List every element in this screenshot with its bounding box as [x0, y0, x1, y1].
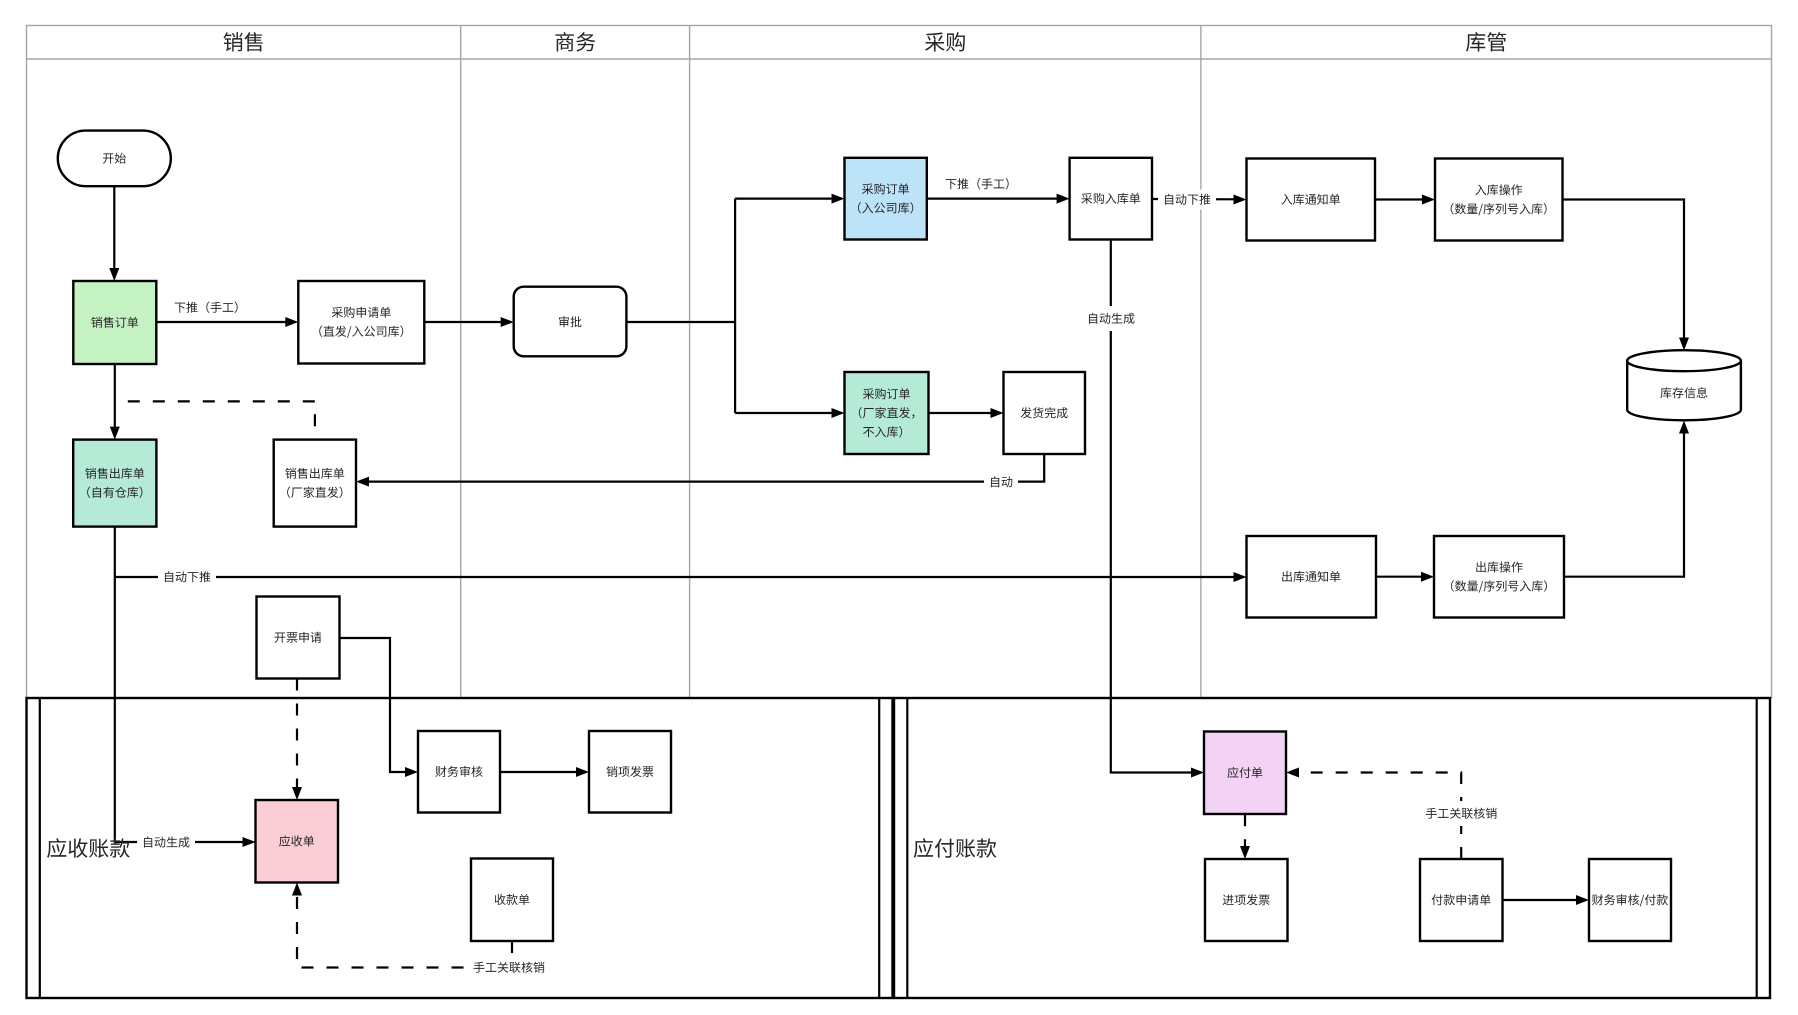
text 采购订单(入公司库): [862, 183, 909, 194]
box 开票申请: [257, 597, 340, 679]
dashed arrow 收款单→应收单 (手工关联核销): [292, 883, 512, 968]
edge label 自动下推 long: [165, 571, 210, 582]
edge label 自动生成 right: [1089, 313, 1135, 324]
arrow 入库通知单→入库操作: [1375, 195, 1435, 205]
lane title 采购: [925, 32, 965, 51]
edge label 自动: [991, 476, 1012, 487]
edge label 手工关联核销 right: [1426, 808, 1497, 819]
arrow 销售订单→销售出库单(自有仓库): [110, 364, 120, 440]
text 入库通知单: [1281, 194, 1340, 205]
lane title 库管: [1466, 32, 1506, 52]
arrow 销售出库单(自有仓库)→出库通知单 (自动下推): [115, 572, 1247, 582]
box 应收单: [256, 800, 339, 883]
box 财务审核/付款: [1589, 859, 1671, 941]
container title 应付账款: [914, 838, 997, 858]
text 销售订单: [91, 317, 138, 328]
text 开票申请: [275, 632, 322, 643]
arrow 开票申请→财务审核: [340, 638, 419, 777]
arrow 发货完成→销售出库单(厂家直发) (自动): [356, 454, 1044, 487]
container 应付账款 left strip line: [906, 698, 908, 998]
box 销售出库单(自有仓库): [73, 440, 156, 527]
text 应付单: [1227, 767, 1262, 778]
lane title 销售: [223, 32, 262, 51]
text 采购入库单: [1081, 193, 1140, 204]
text 销售出库单(厂家直发): [285, 468, 344, 479]
box 出库通知单: [1247, 536, 1377, 618]
container 应付账款 right strip line: [1756, 698, 1758, 998]
box 财务审核: [418, 731, 500, 813]
text 财务审核/付款: [1592, 894, 1668, 906]
text 发货完成: [1021, 407, 1068, 418]
box 付款申请单: [1420, 859, 1503, 941]
dashed arrow 付款申请单→应付单 (手工关联核销): [1286, 768, 1461, 860]
container 应收账款 frame: [27, 698, 893, 998]
arrow 开始→销售订单: [109, 186, 119, 281]
label bg 自动生成 (left): [137, 832, 195, 852]
arrow 审批→采购订单(入公司库) and 采购订单(厂家直发): [626, 194, 844, 418]
dashed link 销售订单→销售出库单(厂家直发): [115, 401, 315, 439]
edge label 自动生成 left: [144, 836, 190, 847]
text 出库操作(数量/序列号入库): [1476, 561, 1522, 572]
text 应收单: [279, 835, 314, 846]
text 审批: [559, 316, 582, 327]
swimlane header separator: [27, 58, 1772, 60]
lane title 商务: [555, 32, 595, 51]
text 财务审核: [435, 766, 482, 777]
arrow 财务审核→销项发票: [500, 767, 589, 777]
label bg 自动生成 (right): [1082, 306, 1140, 331]
box 销项发票: [589, 731, 671, 813]
box 采购入库单: [1070, 158, 1152, 240]
cylinder 库存信息: [1627, 361, 1741, 421]
lane divider 商务/采购: [689, 26, 691, 699]
box 采购订单(厂家直发,不入库): [845, 372, 929, 454]
container 应收账款 right strip line: [878, 698, 880, 998]
rounded box 审批: [514, 287, 627, 357]
box 采购申请单(直发/入公司库): [298, 281, 424, 364]
box 出库操作(数量/序列号入库): [1434, 536, 1564, 618]
arrow 出库通知单→出库操作: [1376, 572, 1434, 582]
text 采购申请单(直发/入公司库): [332, 307, 391, 318]
text 开始: [103, 153, 126, 164]
box 采购订单(入公司库): [845, 158, 927, 240]
edge label 自动下推 top: [1165, 194, 1210, 205]
text 进项发票: [1223, 894, 1270, 905]
label bg 自动下推 (top): [1158, 190, 1216, 210]
label bg 手工关联核销 (right): [1420, 801, 1502, 826]
swimlane pool frame: [27, 26, 1772, 699]
text 出库通知单: [1282, 571, 1340, 582]
lane divider 采购/库管: [1200, 26, 1202, 699]
container title 应收账款: [47, 838, 130, 858]
box 销售出库单(厂家直发): [274, 440, 356, 527]
arrow 采购入库单→入库通知单 (自动下推): [1152, 195, 1247, 205]
text 付款申请单: [1432, 894, 1491, 905]
box 入库操作(数量/序列号入库): [1435, 159, 1563, 241]
box 收款单: [471, 859, 553, 942]
label bg 自动下推 (long): [158, 567, 216, 587]
text 销售出库单(自有仓库): [85, 468, 144, 479]
container 应收账款 left strip line: [39, 698, 41, 998]
text 库存信息: [1660, 387, 1707, 398]
text 采购订单(厂家直发,不入库): [863, 388, 910, 399]
box 发货完成: [1004, 372, 1086, 454]
arrow 出库操作→库存信息: [1564, 421, 1689, 577]
box 进项发票: [1205, 859, 1288, 941]
start terminator 开始: [58, 131, 171, 187]
lane divider 销售/商务: [460, 26, 462, 699]
text 入库操作(数量/序列号入库): [1475, 184, 1522, 195]
arrow 采购订单(入公司库)→采购入库单 (下推 手工): [927, 194, 1070, 204]
arrow 销售出库单(自有仓库)→应收单 (自动生成): [115, 527, 256, 847]
arrow 付款申请单→财务审核/付款: [1503, 895, 1590, 905]
arrow 采购申请单→审批: [424, 317, 513, 327]
box 应付单: [1204, 732, 1286, 815]
arrow 销售订单→采购申请单 (下推 手工): [156, 317, 298, 327]
label bg 自动: [984, 472, 1018, 492]
arrow 入库操作→库存信息: [1563, 200, 1690, 351]
edge label 下推(手工) right: [946, 178, 1009, 189]
arrow 采购入库单→应付单 (自动生成): [1111, 240, 1204, 778]
dashed arrow 开票申请→应收单: [292, 679, 302, 801]
container 应付账款 frame: [894, 698, 1770, 998]
dashed arrow 应付单→进项发票: [1240, 814, 1250, 859]
text 收款单: [495, 894, 530, 905]
text 销项发票: [606, 766, 653, 777]
box 入库通知单: [1247, 159, 1376, 241]
arrow 采购订单(厂家直发)→发货完成: [929, 408, 1004, 418]
edge label 手工关联核销 left: [474, 962, 545, 973]
box 销售订单: [73, 281, 156, 364]
edge label 下推(手工) left: [175, 302, 238, 313]
label bg 手工关联核销 (left): [468, 958, 550, 978]
